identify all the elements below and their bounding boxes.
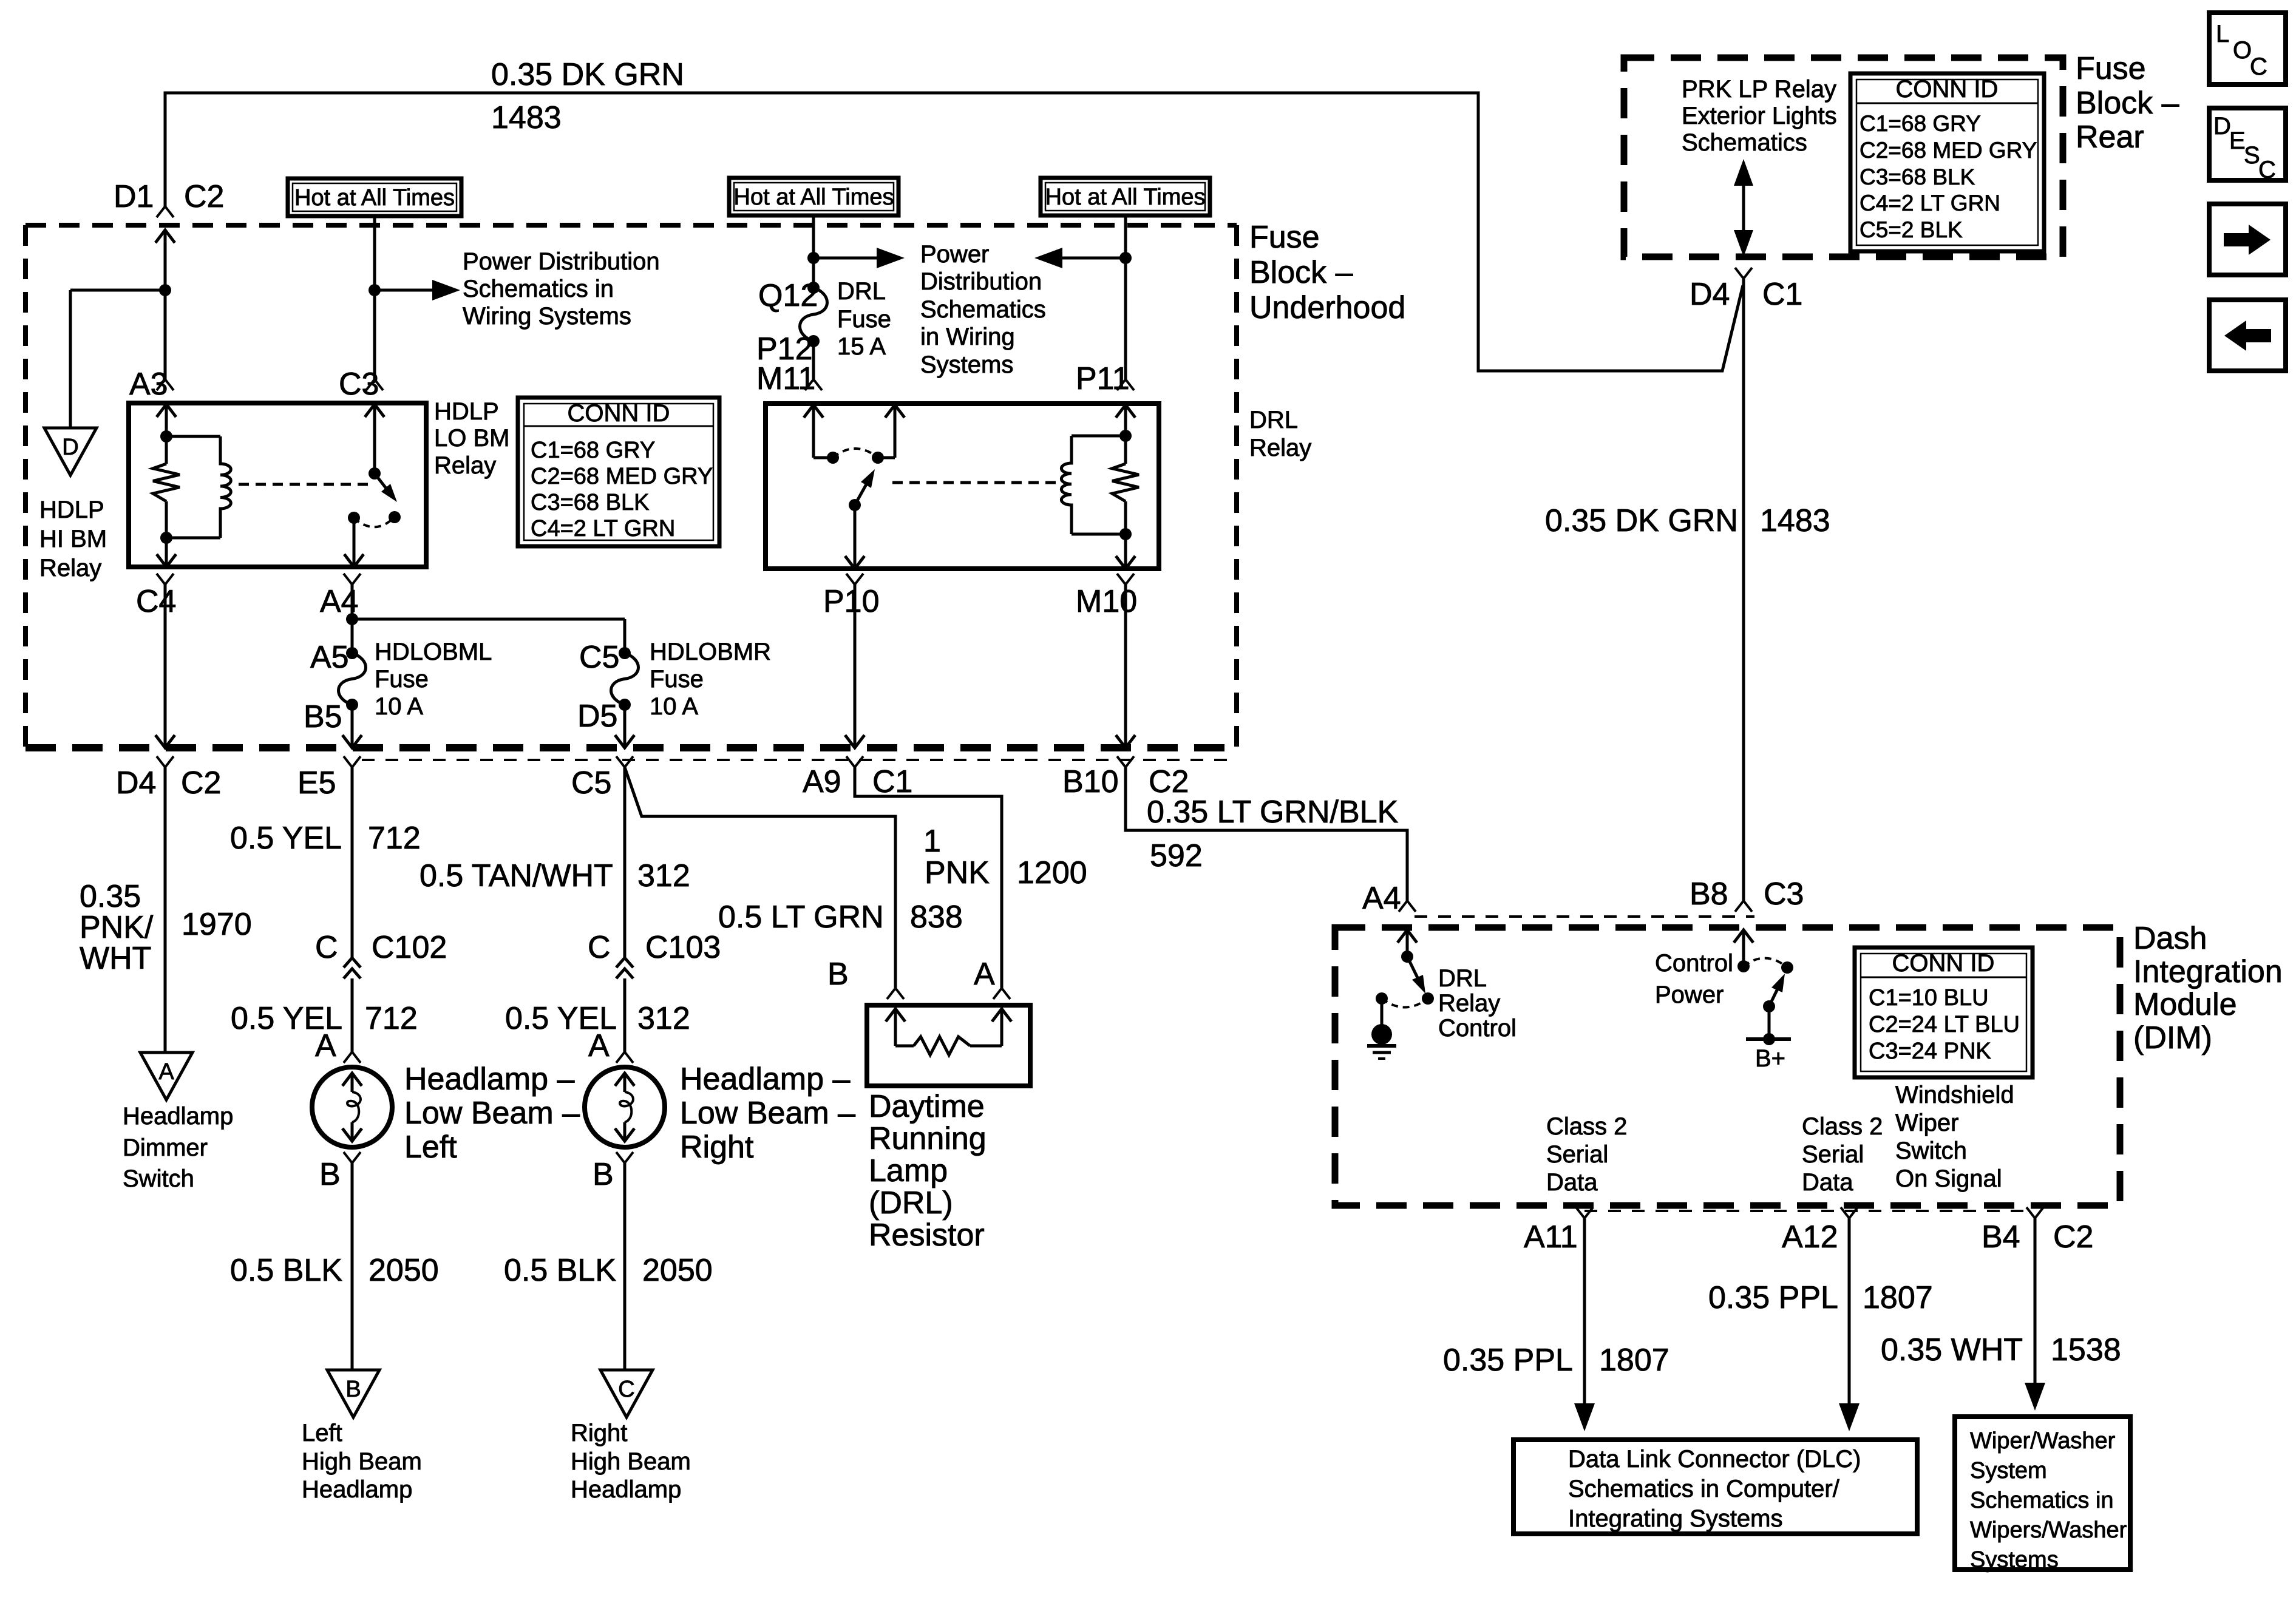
svg-text:C2: C2 (181, 765, 221, 801)
svg-text:A5: A5 (310, 640, 349, 675)
connector C5 (row) (616, 756, 633, 767)
svg-text:B: B (593, 1157, 614, 1192)
label DRL Relay (1249, 407, 1311, 461)
icon box LOC (2209, 13, 2286, 84)
dash integration module dashed box (1335, 927, 2120, 1205)
connector A9/C1 (846, 756, 863, 767)
label 0.5 TAN/WHT 312 (419, 858, 690, 893)
triangle connector D HDLP HI BM relay (44, 428, 97, 475)
svg-text:Exterior Lights: Exterior Lights (1682, 103, 1837, 129)
drl relay coil pin entry P11 (1116, 405, 1135, 436)
label Dash Integration Module DIM (2133, 921, 2283, 1056)
wire arrow right to power distribution (813, 248, 905, 268)
svg-text:Module: Module (2133, 987, 2237, 1022)
svg-text:2050: 2050 (642, 1253, 713, 1288)
svg-text:(DRL): (DRL) (869, 1185, 953, 1221)
svg-text:Low Beam –: Low Beam – (404, 1096, 580, 1131)
icon box arrow left (2209, 300, 2286, 371)
connector M11 (805, 379, 822, 390)
label A11 (1524, 1219, 1578, 1255)
fuse DRL top dot Q12 (807, 282, 820, 294)
label Q12 (758, 278, 818, 313)
dim drl relay control pivot dot (1401, 951, 1413, 963)
dim control power dashed arc (1744, 958, 1787, 968)
svg-text:D5: D5 (577, 699, 617, 734)
relay coil exit arrow to C4 (157, 538, 176, 567)
connector D1/C2 fuse block underhood (157, 206, 174, 217)
label Class 2 Serial Data (right) (1802, 1113, 1883, 1196)
svg-text:Class 2: Class 2 (1546, 1113, 1627, 1140)
fuse block underhood dashed border left (23, 225, 28, 748)
svg-text:Left: Left (302, 1420, 342, 1446)
drl relay contact 2 entry (878, 405, 905, 458)
svg-text:Dimmer: Dimmer (123, 1134, 208, 1161)
wire B5 to E5 (342, 705, 362, 748)
svg-text:D: D (62, 435, 78, 460)
svg-text:C5: C5 (579, 640, 619, 675)
hot at all times box 1 (288, 178, 461, 216)
svg-text:HDLOBMR: HDLOBMR (650, 639, 771, 665)
triangle connector C right high beam (600, 1370, 653, 1417)
svg-text:CONN ID: CONN ID (1892, 950, 1995, 977)
label Class 2 Serial Data (left) (1546, 1113, 1627, 1196)
svg-text:A: A (315, 1028, 336, 1063)
connector C3 (366, 379, 383, 390)
svg-text:1538: 1538 (2051, 1332, 2121, 1368)
svg-text:10 A: 10 A (375, 693, 423, 720)
svg-text:Relay: Relay (434, 452, 496, 479)
connector A4 below relay (344, 574, 361, 653)
svg-text:L: L (2216, 21, 2229, 47)
svg-text:Headlamp: Headlamp (571, 1476, 681, 1503)
svg-text:Systems: Systems (920, 351, 1013, 378)
svg-text:0.35 LT GRN/BLK: 0.35 LT GRN/BLK (1147, 795, 1399, 830)
label D1 (114, 179, 154, 214)
svg-text:A3: A3 (129, 367, 168, 402)
svg-text:Hot at All Times: Hot at All Times (734, 185, 894, 210)
label 0.5 YEL 712 (lower) (231, 1001, 418, 1036)
label 0.5 BLK 2050 (right) (504, 1253, 713, 1288)
label B (left lamp) (319, 1157, 341, 1192)
label PRK LP Relay Exterior Lights Schematics (1682, 76, 1837, 156)
label Left High Beam Headlamp (302, 1420, 422, 1503)
svg-text:Relay: Relay (1249, 435, 1311, 461)
svg-text:C4: C4 (136, 584, 176, 619)
fuse HDLOBML element (339, 653, 366, 705)
ground symbol DIM (1367, 998, 1396, 1059)
svg-text:A: A (974, 957, 995, 992)
fuse HDLOBML top dot A5 (346, 647, 358, 659)
svg-text:Power: Power (920, 241, 989, 268)
wire hot box1 to relay C3 pin (373, 216, 376, 379)
svg-text:Control: Control (1438, 1015, 1517, 1042)
svg-text:0.35: 0.35 (80, 879, 141, 914)
svg-text:LO BM: LO BM (434, 425, 509, 452)
wire left lamp to triangle B (351, 1163, 354, 1370)
svg-text:312: 312 (637, 858, 690, 893)
icon box DESC (2209, 108, 2286, 183)
dim ground contact dot (1376, 992, 1388, 1005)
wire branch to HDLP HI BM relay triangle D (70, 290, 165, 428)
svg-text:0.5 BLK: 0.5 BLK (504, 1253, 616, 1288)
svg-text:C2=24 LT BLU: C2=24 LT BLU (1869, 1012, 2020, 1037)
svg-text:B: B (345, 1377, 361, 1402)
label 0.35 WHT 1538 (B4) (1881, 1332, 2121, 1368)
junction dot on A3 wire (159, 284, 171, 296)
svg-text:C1=10 BLU: C1=10 BLU (1869, 985, 1989, 1011)
svg-text:Data: Data (1802, 1169, 1853, 1196)
svg-text:1483: 1483 (491, 100, 562, 135)
svg-text:Rear: Rear (2076, 120, 2144, 155)
svg-text:B10: B10 (1062, 764, 1119, 799)
svg-text:C4=2 LT GRN: C4=2 LT GRN (531, 516, 675, 541)
label Headlamp Dimmer Switch (123, 1103, 233, 1192)
svg-text:Schematics: Schematics (920, 296, 1046, 323)
svg-text:Relay: Relay (1438, 990, 1500, 1017)
dim drl relay control contact dot (1422, 992, 1434, 1005)
label P10 (823, 584, 880, 619)
svg-text:M10: M10 (1076, 584, 1137, 619)
svg-text:M11: M11 (756, 361, 815, 396)
label C5 (579, 640, 619, 675)
svg-text:C1=68 GRY: C1=68 GRY (1860, 111, 1981, 136)
hot at all times box 3 (1041, 178, 1210, 215)
relay box HDLP LO BM (129, 403, 426, 567)
svg-text:in Wiring: in Wiring (920, 324, 1015, 350)
label C C103 (588, 930, 721, 965)
label A5 (310, 640, 349, 675)
label 0.5 YEL 712 (upper) (230, 821, 421, 856)
svg-text:A: A (158, 1059, 174, 1085)
wire C5 to C103 (623, 767, 627, 958)
label A (resistor) (974, 957, 995, 992)
wire C103 to headlamp right (623, 978, 627, 1052)
relay coil top dot (160, 430, 172, 442)
svg-text:A4: A4 (1362, 881, 1401, 916)
svg-text:B+: B+ (1755, 1045, 1785, 1072)
wire from D1/C2 into fuse block (155, 230, 175, 379)
svg-text:HDLP: HDLP (434, 398, 499, 425)
conn id table underhood (518, 398, 719, 546)
label Daytime Running Lamp DRL Resistor (869, 1089, 987, 1253)
svg-text:DRL: DRL (1249, 407, 1298, 433)
label M11 (756, 361, 815, 396)
junction dot A4 fuse feed (346, 613, 358, 625)
dim switch dashed arc (1382, 998, 1428, 1008)
label C C102 (315, 930, 447, 965)
svg-text:Power Distribution: Power Distribution (463, 248, 660, 275)
label power distribution schematics in wiring systems (463, 248, 660, 330)
icon box arrow right (2209, 204, 2286, 275)
svg-text:B: B (827, 957, 849, 992)
label Headlamp Low Beam Right (680, 1062, 855, 1165)
label B+ (1755, 1045, 1785, 1072)
svg-text:Switch: Switch (1895, 1137, 1967, 1164)
svg-text:0.5 BLK: 0.5 BLK (230, 1253, 342, 1288)
label E5 (297, 765, 336, 801)
fuse DRL bottom dot P12 (807, 335, 820, 347)
svg-text:E: E (2229, 127, 2246, 154)
connector B headlamp right (616, 1152, 633, 1163)
svg-text:0.5 LT GRN: 0.5 LT GRN (718, 900, 884, 935)
bulb headlamp low beam right (585, 1067, 665, 1147)
label A (right lamp) (588, 1028, 610, 1063)
svg-text:1483: 1483 (1760, 503, 1830, 538)
connector A headlamp left (344, 1052, 361, 1063)
connector M10 below relay (1116, 574, 1135, 748)
fuse HDLOBMR element (611, 653, 639, 705)
svg-text:1200: 1200 (1017, 855, 1087, 890)
label HDLOBML Fuse 10 A (375, 639, 492, 720)
svg-text:C2: C2 (2053, 1219, 2093, 1255)
svg-text:HDLP: HDLP (39, 497, 104, 523)
svg-text:0.35 DK GRN: 0.35 DK GRN (1545, 503, 1738, 538)
svg-text:Wiring Systems: Wiring Systems (463, 303, 631, 330)
relay mechanical link dashed (239, 483, 368, 486)
label Right High Beam Headlamp (571, 1420, 691, 1503)
box data link connector DLC (1513, 1440, 1917, 1534)
relay switch pivot dot (369, 467, 381, 480)
label C3 (339, 367, 379, 402)
svg-text:C: C (2258, 157, 2276, 183)
svg-text:Right: Right (680, 1130, 754, 1165)
svg-text:Headlamp: Headlamp (123, 1103, 233, 1130)
label HDLP LO BM Relay (434, 398, 509, 479)
svg-text:Fuse: Fuse (650, 666, 704, 693)
svg-text:CONN ID: CONN ID (568, 400, 670, 427)
svg-text:Daytime: Daytime (869, 1089, 985, 1124)
relay switch common entry from C3 (365, 404, 384, 473)
svg-text:Resistor: Resistor (869, 1218, 985, 1253)
relay switch moving contact dot (389, 511, 401, 523)
svg-text:Data Link Connector (DLC): Data Link Connector (DLC) (1568, 1446, 1861, 1473)
label C3 (dim) (1764, 876, 1804, 912)
wire 0.35 LT GRN/BLK 592 from B10/C2 to DIM A4 (1126, 767, 1407, 901)
svg-text:PNK/: PNK/ (80, 910, 154, 945)
label 0.35 DK GRN (491, 57, 684, 92)
svg-text:0.35 PPL: 0.35 PPL (1443, 1343, 1573, 1378)
label HDLP HI BM Relay (39, 497, 107, 581)
conn id table dim (1855, 947, 2033, 1077)
hot at all times box 2 (729, 178, 898, 215)
svg-text:C1=68 GRY: C1=68 GRY (531, 438, 655, 463)
label C1 (rear) (1762, 277, 1802, 312)
relay coil pin 85 entry arrow (157, 404, 176, 436)
label C2 (b4) (2053, 1219, 2093, 1255)
svg-text:CONN ID: CONN ID (1896, 76, 1999, 103)
svg-text:A9: A9 (803, 764, 841, 799)
svg-text:Fuse: Fuse (1249, 220, 1320, 255)
svg-text:592: 592 (1150, 838, 1203, 873)
svg-text:Underhood: Underhood (1249, 290, 1405, 325)
drl relay mechanical link dashed (892, 481, 1062, 484)
svg-text:Headlamp: Headlamp (302, 1476, 412, 1503)
svg-text:Control: Control (1655, 950, 1733, 977)
label A9 (803, 764, 841, 799)
svg-text:PRK LP Relay: PRK LP Relay (1682, 76, 1836, 103)
svg-text:C: C (315, 930, 338, 965)
svg-text:S: S (2244, 142, 2260, 169)
label 1483 (vert) (1760, 503, 1830, 538)
label C4 (136, 584, 176, 619)
relay switch exit arrow to A4 (344, 518, 364, 567)
wire hot box3 down to P11 (1124, 215, 1127, 379)
drl relay switch pivot dot (849, 499, 861, 511)
svg-text:Left: Left (404, 1130, 457, 1165)
svg-text:Headlamp –: Headlamp – (404, 1062, 574, 1097)
connector D4/C1 (1735, 268, 1752, 901)
relay coil element (166, 436, 231, 538)
fuse HDLOBMR top dot C5 (619, 647, 631, 659)
svg-text:Integrating Systems: Integrating Systems (1568, 1505, 1783, 1532)
svg-text:10 A: 10 A (650, 693, 698, 720)
label A12 (1782, 1219, 1838, 1255)
wire 0.35 DK GRN 1483 from HDLP relay D1/C2 to Fuse Block Rear D4/C1 (165, 93, 1743, 371)
svg-text:Dash: Dash (2133, 921, 2207, 956)
svg-text:Fuse: Fuse (837, 306, 891, 333)
svg-text:Integration: Integration (2133, 954, 2283, 989)
dim control power arm pivot dot (1763, 1000, 1775, 1012)
svg-text:A: A (588, 1028, 610, 1063)
label D5 (577, 699, 617, 734)
svg-text:A11: A11 (1524, 1219, 1578, 1255)
svg-text:E5: E5 (297, 765, 336, 801)
conn id table rear (1850, 73, 2044, 251)
drl resistor internals (886, 1009, 1011, 1055)
svg-text:C3: C3 (339, 367, 379, 402)
label A (left lamp) (315, 1028, 336, 1063)
svg-text:C103: C103 (645, 930, 721, 965)
svg-text:712: 712 (368, 821, 421, 856)
wire D5 to C5 connector (615, 705, 634, 748)
relay coil bottom dot (160, 532, 172, 544)
svg-text:High Beam: High Beam (302, 1448, 422, 1475)
label HDLOBMR Fuse 10 A (650, 639, 771, 720)
wire A4 to HDLOBMR fuse (352, 619, 625, 653)
junction dot DRL feed (807, 252, 820, 264)
dim control power input arrow (1734, 930, 1753, 966)
svg-text:C5: C5 (571, 765, 611, 801)
svg-text:Wiper/Washer: Wiper/Washer (1970, 1428, 2116, 1454)
label 1 PNK 1200 (923, 824, 1087, 890)
svg-text:C5=2 BLK: C5=2 BLK (1860, 217, 1963, 242)
connector row dashed line (362, 759, 1237, 761)
connector B10/C2 (1117, 756, 1134, 767)
svg-text:2050: 2050 (369, 1253, 439, 1288)
svg-text:Lamp: Lamp (869, 1153, 948, 1188)
fuse HDLOBML bottom dot B5 (346, 699, 358, 711)
svg-text:Schematics in: Schematics in (463, 276, 614, 302)
label Control Power (1655, 950, 1733, 1008)
svg-text:Hot at All Times: Hot at All Times (1045, 185, 1206, 210)
svg-text:Schematics: Schematics (1682, 129, 1807, 156)
dim control power pivot dot (1737, 960, 1750, 972)
label 0.35 LT GRN/BLK (1147, 795, 1399, 830)
connector A3 (157, 379, 174, 390)
svg-text:0.35 WHT: 0.35 WHT (1881, 1332, 2023, 1368)
svg-text:312: 312 (637, 1001, 690, 1036)
connector A headlamp right (616, 1052, 633, 1063)
drl relay contact dashed arc (833, 449, 878, 458)
label C2 (181, 765, 221, 801)
drl relay contact dot left (827, 452, 839, 464)
drl relay coil element (1061, 436, 1126, 534)
svg-text:C: C (588, 930, 611, 965)
svg-text:1807: 1807 (1599, 1343, 1669, 1378)
label P11 (1076, 361, 1130, 396)
connector row dashed line DIM top (1415, 915, 1754, 918)
wire C102 to headlamp left (351, 978, 354, 1052)
svg-text:B4: B4 (1982, 1219, 2020, 1255)
label B5 (304, 699, 342, 734)
svg-text:D1: D1 (114, 179, 154, 214)
label 0.5 LT GRN 838 (718, 900, 963, 935)
label P12 (756, 331, 813, 367)
junction dot P11 feed (1119, 252, 1132, 264)
svg-text:Block –: Block – (1249, 255, 1353, 290)
label D4 (116, 765, 156, 801)
wire hot box2 down to DRL fuse (812, 215, 815, 288)
label A3 (129, 367, 168, 402)
svg-text:On Signal: On Signal (1895, 1165, 2002, 1192)
connector A11 (1574, 1207, 1595, 1431)
drl relay contact dot right (872, 452, 884, 464)
svg-text:Serial: Serial (1546, 1141, 1608, 1168)
drl relay coil exit arrow M10 (1116, 534, 1135, 569)
connector A12 (1839, 1207, 1860, 1431)
svg-text:C4=2 LT GRN: C4=2 LT GRN (1860, 191, 2000, 215)
connector B4 (2025, 1207, 2045, 1411)
connector A drl resistor (993, 988, 1010, 999)
svg-text:P10: P10 (823, 584, 880, 619)
svg-text:Wiper: Wiper (1895, 1110, 1958, 1136)
svg-text:1970: 1970 (182, 907, 252, 942)
relay box DRL (766, 404, 1159, 569)
svg-text:0.5 YEL: 0.5 YEL (230, 821, 342, 856)
svg-text:1: 1 (923, 824, 941, 859)
svg-text:A12: A12 (1782, 1219, 1838, 1255)
relay resistor element (153, 436, 180, 538)
wire 1 PNK 1200 from A9/C1 to DRL resistor A (855, 767, 1002, 988)
dim drl relay control input arrow (1398, 930, 1417, 957)
label Fuse Block Rear (2076, 51, 2179, 155)
svg-text:B5: B5 (304, 699, 342, 734)
svg-text:Q12: Q12 (758, 278, 818, 313)
wire right lamp to triangle C (623, 1163, 627, 1370)
svg-text:HI BM: HI BM (39, 526, 107, 552)
svg-text:C2: C2 (184, 179, 224, 214)
label 0.5 YEL 312 (lower) (505, 1001, 690, 1036)
resistor box DRL (867, 1005, 1030, 1086)
svg-text:Switch: Switch (123, 1165, 194, 1192)
dim control power contact dot (1781, 961, 1793, 974)
svg-text:Fuse: Fuse (2076, 51, 2146, 86)
drl relay coil bottom dot (1119, 528, 1132, 540)
svg-text:Fuse: Fuse (375, 666, 429, 693)
fuse DRL element (800, 288, 827, 341)
fuse block underhood dashed border top (25, 223, 1237, 228)
svg-text:Relay: Relay (39, 555, 101, 581)
svg-text:Running: Running (869, 1121, 987, 1156)
label 0.35 PNK/ WHT (80, 879, 154, 976)
svg-text:0.35 DK GRN: 0.35 DK GRN (491, 57, 684, 92)
label C2 (b10) (1149, 764, 1189, 799)
label 1483 (491, 100, 562, 135)
svg-text:(DIM): (DIM) (2133, 1020, 2212, 1056)
svg-text:15 A: 15 A (837, 333, 886, 360)
svg-text:Schematics in: Schematics in (1970, 1488, 2114, 1513)
svg-text:C2=68 MED GRY: C2=68 MED GRY (531, 464, 713, 489)
